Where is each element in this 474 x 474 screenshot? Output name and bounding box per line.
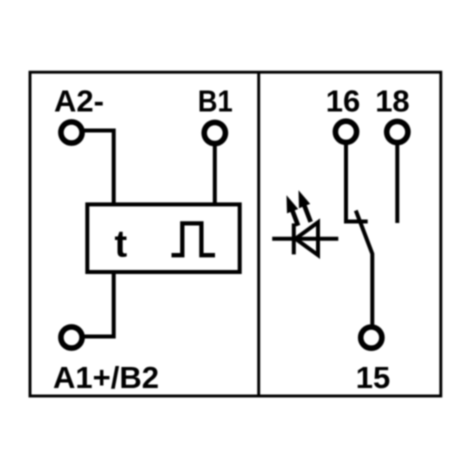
wire timer box to A1 [83,270,114,337]
LED light arrow 1 [281,193,304,228]
timer function block [87,204,239,272]
svg-text:A2-: A2- [54,84,104,119]
wire A2 to timer box [83,131,114,207]
terminal A2 [61,122,82,143]
section divider [257,72,260,396]
contact moving arm [356,211,373,327]
relay enclosure outline [30,72,441,396]
wire terminal 16 to fixed contact [346,144,368,222]
svg-text:15: 15 [356,360,390,395]
terminal 16 [335,121,356,142]
svg-text:18: 18 [375,84,409,119]
wire B1 to timer box [213,145,217,206]
terminal A1 [61,327,82,348]
LED light arrow 2 [293,188,316,224]
pulse symbol [172,223,216,255]
terminal 15 [361,327,382,348]
terminal B1 [204,122,225,143]
svg-text:B1: B1 [198,84,233,119]
terminal 18 [387,121,408,142]
svg-text:16: 16 [326,84,360,119]
LED triangle [296,222,319,255]
svg-text:A1+/B2: A1+/B2 [53,360,159,395]
LED wire [272,237,338,241]
svg-text:t: t [115,224,128,266]
wire terminal 18 open end [395,144,399,223]
LED cathode bar [292,223,296,254]
